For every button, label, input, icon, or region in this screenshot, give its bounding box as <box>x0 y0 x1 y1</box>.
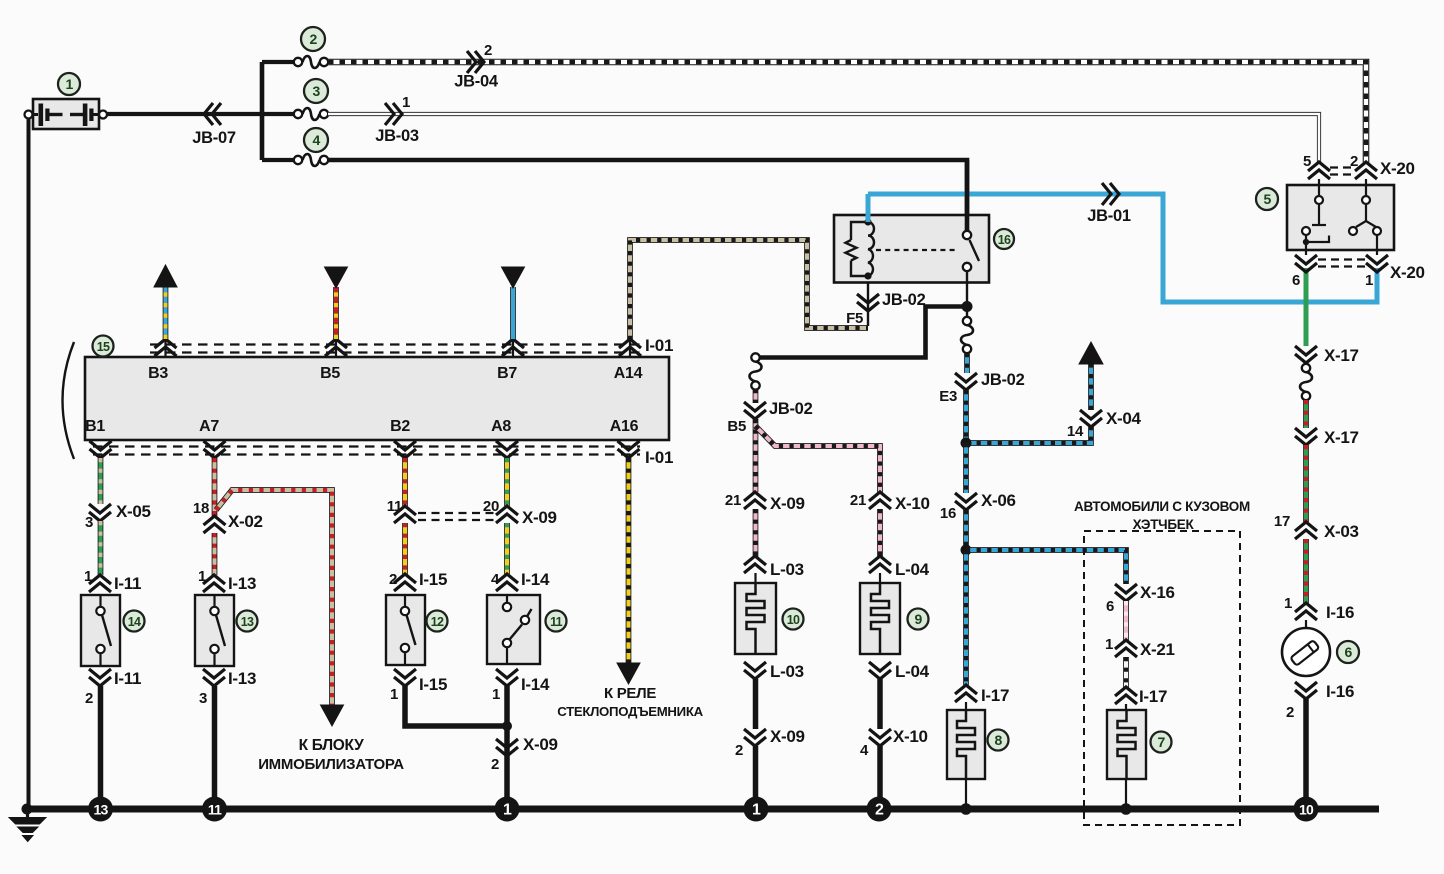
svg-text:ХЭТЧБЕК: ХЭТЧБЕК <box>1133 517 1195 532</box>
svg-text:A7: A7 <box>199 418 219 435</box>
svg-text:I-17: I-17 <box>1139 687 1167 706</box>
svg-text:1: 1 <box>402 94 410 111</box>
svg-text:2: 2 <box>389 571 397 588</box>
svg-text:I-01: I-01 <box>645 336 673 355</box>
svg-text:B5: B5 <box>727 418 746 435</box>
svg-text:X-21: X-21 <box>1140 640 1175 659</box>
svg-text:17: 17 <box>1274 513 1290 530</box>
svg-text:2: 2 <box>491 756 499 773</box>
svg-text:К БЛОКУ: К БЛОКУ <box>299 737 365 754</box>
svg-text:I-14: I-14 <box>521 570 550 589</box>
svg-text:3: 3 <box>85 514 93 531</box>
svg-text:L-03: L-03 <box>770 662 804 681</box>
svg-text:F5: F5 <box>846 310 863 327</box>
svg-text:18: 18 <box>193 500 209 517</box>
svg-text:JB-02: JB-02 <box>769 400 813 418</box>
svg-text:1: 1 <box>198 568 206 585</box>
svg-text:1: 1 <box>1105 636 1113 653</box>
svg-text:X-09: X-09 <box>770 494 805 513</box>
svg-text:ИММОБИЛИЗАТОРА: ИММОБИЛИЗАТОРА <box>258 756 404 773</box>
svg-text:11: 11 <box>387 498 402 515</box>
svg-text:I-13: I-13 <box>228 669 256 688</box>
svg-text:6: 6 <box>1292 272 1300 289</box>
svg-text:B2: B2 <box>390 418 410 435</box>
svg-text:2: 2 <box>735 742 743 759</box>
svg-text:X-17: X-17 <box>1324 346 1359 365</box>
svg-text:A8: A8 <box>491 418 511 435</box>
svg-text:1: 1 <box>752 802 761 819</box>
svg-text:4: 4 <box>312 132 320 148</box>
svg-text:JB-07: JB-07 <box>192 129 236 147</box>
svg-text:2: 2 <box>1350 153 1358 170</box>
svg-text:2: 2 <box>875 802 884 819</box>
svg-text:2: 2 <box>1286 704 1294 721</box>
svg-text:7: 7 <box>1157 734 1165 750</box>
svg-text:6: 6 <box>1106 598 1114 615</box>
svg-text:I-15: I-15 <box>419 675 447 694</box>
svg-text:JB-01: JB-01 <box>1087 207 1131 225</box>
svg-text:I-13: I-13 <box>228 574 256 593</box>
svg-text:X-09: X-09 <box>523 735 558 754</box>
svg-text:1: 1 <box>84 568 92 585</box>
svg-text:6: 6 <box>1344 644 1352 660</box>
svg-text:X-17: X-17 <box>1324 428 1359 447</box>
svg-text:К РЕЛЕ: К РЕЛЕ <box>604 685 656 702</box>
svg-text:5: 5 <box>1263 191 1271 207</box>
svg-text:20: 20 <box>483 498 499 515</box>
svg-text:L-04: L-04 <box>895 662 930 681</box>
svg-text:X-04: X-04 <box>1106 409 1142 428</box>
svg-text:B3: B3 <box>148 365 168 382</box>
svg-text:X-06: X-06 <box>981 491 1016 510</box>
svg-text:21: 21 <box>850 492 866 509</box>
svg-text:1: 1 <box>65 76 73 92</box>
svg-text:L-04: L-04 <box>895 560 930 579</box>
svg-text:12: 12 <box>431 615 444 629</box>
svg-text:2: 2 <box>484 42 492 59</box>
svg-text:2: 2 <box>85 690 93 707</box>
svg-text:2: 2 <box>309 31 317 47</box>
svg-text:I-14: I-14 <box>521 675 550 694</box>
svg-text:JB-02: JB-02 <box>981 371 1025 389</box>
svg-text:X-20: X-20 <box>1390 263 1425 282</box>
svg-text:9: 9 <box>914 611 922 627</box>
svg-text:I-01: I-01 <box>645 448 673 467</box>
svg-text:15: 15 <box>97 340 110 354</box>
svg-text:X-10: X-10 <box>893 727 928 746</box>
svg-text:X-03: X-03 <box>1324 522 1359 541</box>
svg-text:JB-02: JB-02 <box>882 291 926 309</box>
svg-text:X-10: X-10 <box>895 494 930 513</box>
svg-text:B7: B7 <box>497 365 517 382</box>
svg-text:16: 16 <box>998 233 1011 247</box>
svg-text:3: 3 <box>199 690 207 707</box>
svg-text:X-20: X-20 <box>1380 159 1415 178</box>
svg-text:10: 10 <box>1299 802 1314 818</box>
svg-text:4: 4 <box>491 571 500 588</box>
svg-text:I-11: I-11 <box>114 574 141 593</box>
svg-text:I-17: I-17 <box>981 686 1009 705</box>
svg-text:JB-03: JB-03 <box>375 127 419 145</box>
svg-text:1: 1 <box>390 686 398 703</box>
svg-text:X-05: X-05 <box>116 502 151 521</box>
svg-text:СТЕКЛОПОДЪЕМНИКА: СТЕКЛОПОДЪЕМНИКА <box>557 704 703 719</box>
svg-text:E3: E3 <box>939 388 957 405</box>
svg-text:8: 8 <box>994 732 1002 748</box>
svg-text:5: 5 <box>1303 153 1311 170</box>
svg-text:B5: B5 <box>320 365 340 382</box>
svg-text:X-02: X-02 <box>228 512 263 531</box>
svg-text:I-16: I-16 <box>1326 603 1354 622</box>
svg-text:1: 1 <box>1284 595 1292 612</box>
svg-text:A16: A16 <box>610 418 639 435</box>
svg-text:13: 13 <box>241 615 254 629</box>
svg-text:3: 3 <box>312 83 320 99</box>
svg-text:11: 11 <box>550 615 563 629</box>
svg-text:АВТОМОБИЛИ С КУЗОВОМ: АВТОМОБИЛИ С КУЗОВОМ <box>1074 499 1250 514</box>
svg-text:11: 11 <box>208 802 222 818</box>
svg-text:X-09: X-09 <box>522 508 557 527</box>
svg-text:B1: B1 <box>85 418 105 435</box>
svg-text:I-15: I-15 <box>419 570 447 589</box>
svg-text:21: 21 <box>725 492 741 509</box>
svg-text:10: 10 <box>787 613 800 627</box>
svg-text:16: 16 <box>940 505 956 522</box>
svg-text:14: 14 <box>128 615 141 629</box>
svg-text:1: 1 <box>1365 272 1373 289</box>
svg-text:I-16: I-16 <box>1326 682 1354 701</box>
svg-text:14: 14 <box>1067 423 1084 440</box>
svg-text:I-11: I-11 <box>114 669 141 688</box>
svg-text:1: 1 <box>503 802 512 819</box>
svg-text:4: 4 <box>860 742 869 759</box>
svg-text:X-09: X-09 <box>770 727 805 746</box>
svg-text:1: 1 <box>492 686 500 703</box>
svg-text:X-16: X-16 <box>1140 583 1175 602</box>
svg-text:L-03: L-03 <box>770 560 804 579</box>
svg-text:JB-04: JB-04 <box>454 73 499 91</box>
svg-text:A14: A14 <box>614 365 643 382</box>
svg-text:13: 13 <box>94 802 109 818</box>
